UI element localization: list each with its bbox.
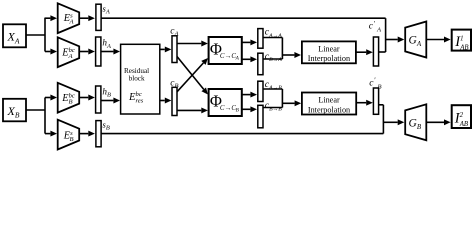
svg-text:sB: sB xyxy=(102,120,109,132)
svg-text:EsA: EsA xyxy=(63,12,75,25)
svg-text:I1AB: I1AB xyxy=(454,34,468,52)
svg-text:′: ′ xyxy=(373,20,375,28)
svg-text:I2AB: I2AB xyxy=(454,110,468,128)
svg-text:′: ′ xyxy=(374,77,376,85)
svg-text:hA: hA xyxy=(102,38,111,50)
svg-text:block: block xyxy=(129,74,145,82)
svg-text:GA: GA xyxy=(409,34,422,48)
svg-text:Ebcres: Ebcres xyxy=(128,91,144,105)
svg-text:cA: cA xyxy=(170,26,179,37)
svg-text:XA: XA xyxy=(7,29,20,45)
svg-text:sA: sA xyxy=(102,3,109,15)
svg-text:Linear: Linear xyxy=(318,44,340,53)
svg-text:GB: GB xyxy=(409,117,422,131)
svg-text:EsB: EsB xyxy=(63,130,74,143)
svg-text:B: B xyxy=(236,107,240,113)
svg-text:Interpolation: Interpolation xyxy=(308,105,350,114)
svg-text:cB→A: cB→A xyxy=(265,51,282,63)
svg-text:A: A xyxy=(376,27,382,34)
svg-text:EbcA: EbcA xyxy=(61,47,75,60)
svg-text:B: B xyxy=(378,83,382,90)
svg-text:XB: XB xyxy=(7,104,20,120)
svg-text:A: A xyxy=(235,55,240,61)
svg-text:C→C: C→C xyxy=(220,105,236,112)
svg-text:Linear: Linear xyxy=(318,96,340,105)
svg-text:cB: cB xyxy=(170,78,178,89)
svg-text:Interpolation: Interpolation xyxy=(308,54,350,63)
svg-text:cB→B: cB→B xyxy=(265,100,282,112)
svg-text:EbcB: EbcB xyxy=(61,92,75,105)
svg-text:C→C: C→C xyxy=(220,53,236,60)
svg-text:hB: hB xyxy=(102,86,111,98)
